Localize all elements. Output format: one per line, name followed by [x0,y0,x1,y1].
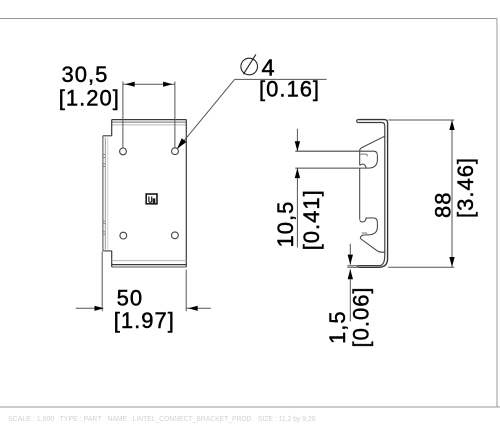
hole top-left [120,148,127,155]
arrowhead at left ext (pointing right) [95,306,105,311]
arrowhead 1,5 lower (pointing up) [348,269,353,279]
svg-text:[0.41]: [0.41] [299,189,324,250]
svg-text:SIZE : 11,2 by 9,28: SIZE : 11,2 by 9,28 [258,416,316,423]
extension line left (to top-left hole) [122,82,124,148]
leader line to hole [178,79,235,148]
left flange step bottom [103,250,112,252]
leader shoulder line [235,78,327,80]
extension line bottom (part bottom extended) [388,266,454,268]
svg-text:TYPE : PART: TYPE : PART [60,416,103,423]
lower hook bottom line [364,234,368,236]
extension line lower [347,266,357,268]
dimension line left tail [76,307,102,309]
dimension text [1.20] [59,86,120,111]
front view right edge [185,120,187,267]
diameter symbol [241,54,258,74]
dimension line lower part with up arrow [296,168,298,247]
upper hook top line (with extension to dim) [295,150,373,152]
front view top edge line (outer) [112,119,187,121]
lower hook inner lance line [362,232,367,235]
lower hook top line [366,217,374,219]
extension line top [388,119,454,121]
sheet frame bottom line [0,406,500,408]
arrowhead right (pointing right) [163,82,173,87]
svg-text:[1.97]: [1.97] [114,308,175,333]
dimension line right tail [186,307,211,309]
hole bottom-left [120,232,127,239]
center logo square [146,194,157,205]
arrowhead 1,5 upper (pointing down) [348,255,353,265]
footer title text [8,416,316,423]
svg-text:1,5: 1,5 [325,310,350,344]
sheet frame top line [0,18,497,20]
hole top-right [172,148,179,155]
dimension text 30,5 [62,62,109,87]
front view bottom bend tangent (faint) [112,260,187,262]
dimension line lower tail with up arrow [349,269,351,321]
left flange faint bend line [107,138,109,250]
left flange outer edge [102,136,104,251]
arrowhead 10,5 lower (pointing up) [295,168,300,178]
front view bottom edge line (outer) [112,266,187,268]
side view inner right vertical [384,126,386,255]
lower hook notch [360,218,366,222]
svg-text:[1.20]: [1.20] [59,86,120,111]
dimension line upper part with down arrow [296,129,298,152]
side view right outer vertical [387,123,389,259]
arrowhead at right ext (pointing left) [188,306,198,311]
svg-text:[0.06]: [0.06] [348,286,373,347]
extension line upper [347,265,357,267]
arrowhead top (pointing up) [449,120,454,130]
dimension text 1,5 (rotated) [325,310,350,344]
dimension text [0.41] (rotated) [299,189,324,250]
front view top edge line (middle) [112,121,187,123]
lower hook diagonal [360,239,385,253]
leader arrowhead at hole [177,138,186,149]
upper hook inner lance line [360,154,367,156]
front view top bend tangent line (faint) [112,124,187,126]
dimension text [0.16] [259,77,320,102]
svg-text:10,5: 10,5 [273,201,298,248]
dimension text 4 [262,55,276,81]
lower hook rounded cap [368,218,377,235]
side view bottom left cap [357,266,358,268]
upper hook bottom line (with extension to dim) [295,167,368,169]
dimension text [0.06] (rotated) [348,286,373,347]
svg-text:SCALE : 1,000: SCALE : 1,000 [8,416,54,423]
svg-text:NAME : LINTEL_CONNECT_BRACKET_: NAME : LINTEL_CONNECT_BRACKET_PROD [108,416,252,423]
side view bottom inner line and corner [359,255,385,266]
svg-text:88: 88 [430,192,455,218]
front view left edge upper segment [111,120,113,136]
arrowhead bottom (pointing down) [449,257,454,267]
side view top flange outer line + corner [358,120,387,123]
arrowhead 10,5 upper (pointing down) [295,141,300,151]
extension line left [101,252,103,312]
front view bottom edge line (dark) [112,264,187,266]
dimension text 50 [117,285,143,310]
side view bottom outer corner and bottom line [359,259,388,268]
dimension text [3.46] (rotated) [453,157,478,218]
extension line right [185,270,187,311]
left flange inner line [104,138,106,250]
svg-text:[3.46]: [3.46] [453,157,478,218]
front view left edge lower segment [111,251,113,267]
left vertical between hooks [359,168,361,220]
dimension line upper tail with down arrow [349,244,351,265]
arrowhead left (pointing left) [125,82,135,87]
dimension line 88 [451,120,453,267]
flange tick marks [103,155,105,235]
dimension text 10,5 (rotated) [273,201,298,248]
upper hook diagonal [360,136,385,165]
side view flange left end cap [357,120,359,123]
side view flange bottom line + inner corner [358,123,385,127]
svg-text:[0.16]: [0.16] [259,77,320,102]
lower hook curve into diagonal [360,235,364,239]
dimension text [1.97] [114,308,175,333]
upper hook notch [360,164,366,168]
extension line right (to top-right hole) [174,82,176,148]
left flange step top [103,135,112,137]
svg-text:50: 50 [117,285,143,310]
dimension text 88 (rotated) [430,192,455,218]
svg-text:30,5: 30,5 [62,62,109,87]
dimension line 30,5 [123,83,175,85]
sheet frame right line [496,19,498,408]
hole bottom-right [172,232,179,239]
upper hook rounded cap [368,151,377,168]
